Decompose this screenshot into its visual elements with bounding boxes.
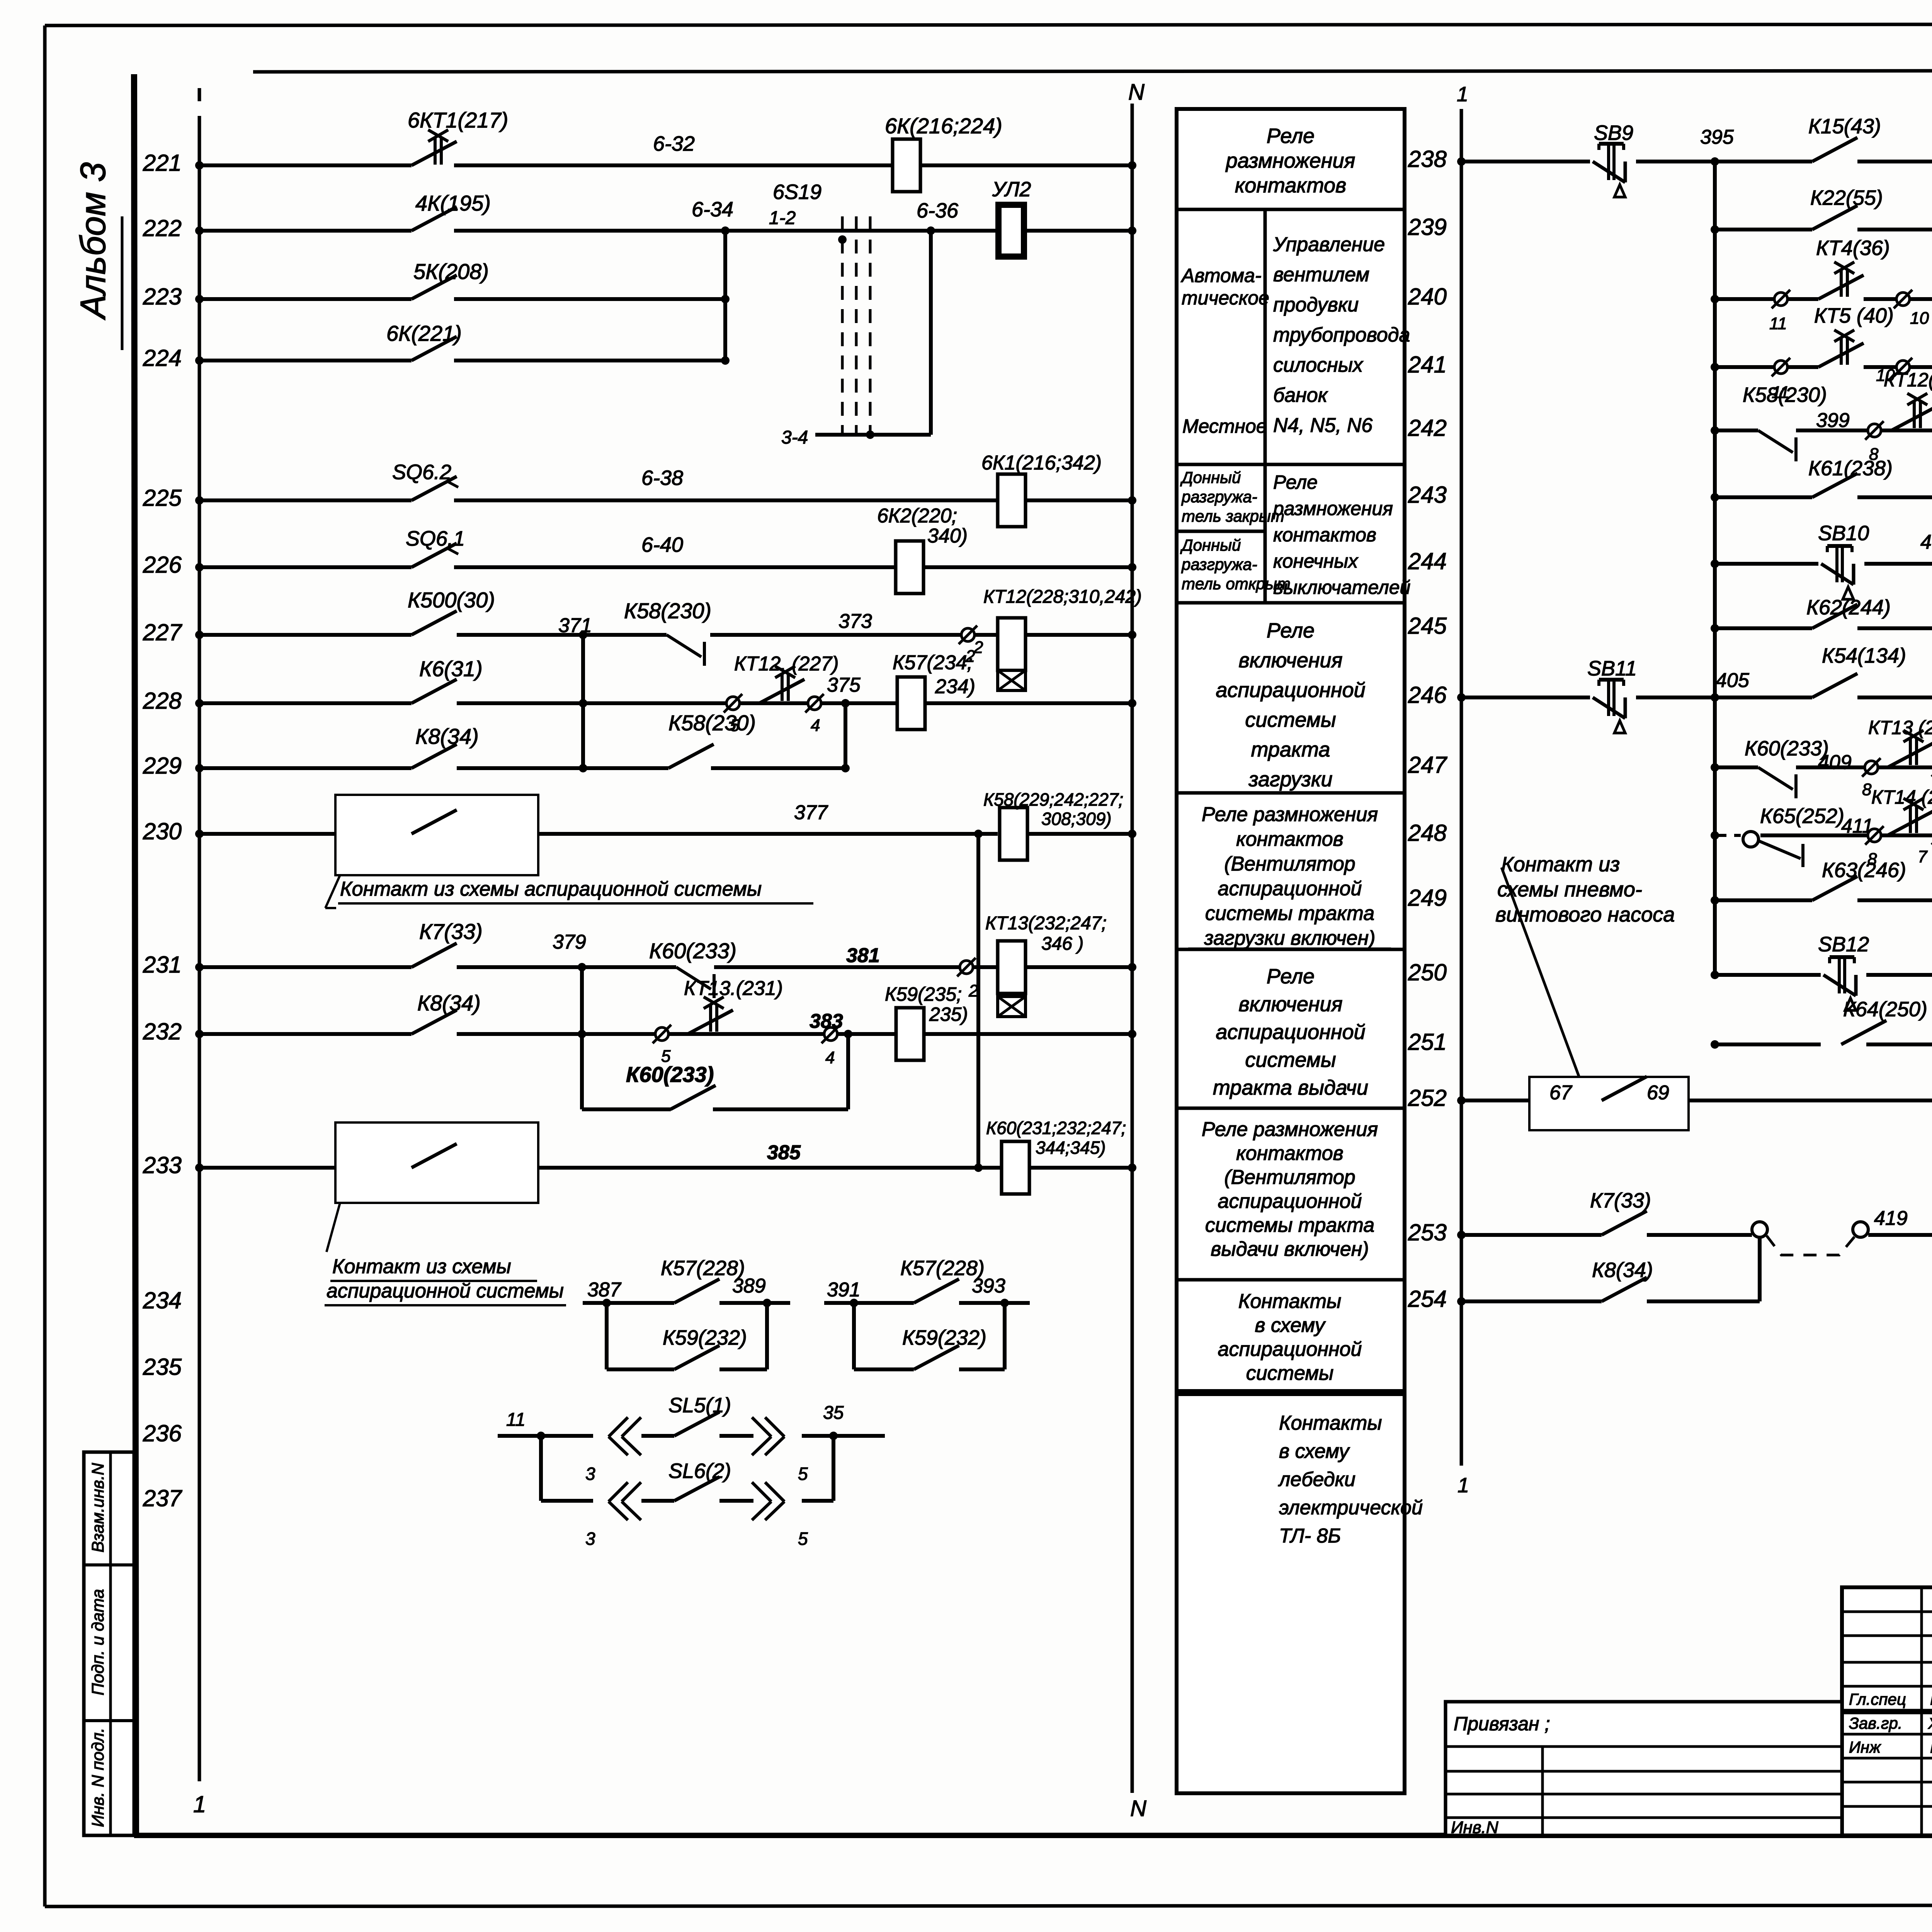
svg-text:375: 375 [827,674,861,696]
row number 225 [143,485,182,511]
svg-text:Инв.N: Инв.N [1451,1818,1498,1837]
svg-text:395: 395 [1700,126,1734,148]
svg-text:SB12: SB12 [1818,933,1869,956]
contact КТ4(36) timed [1818,262,1864,299]
pin Ø10 row241 [1876,358,1912,385]
svg-text:загрузки: загрузки [1248,768,1332,791]
contact К15(43) [1812,138,1857,162]
label К60(231;232;247;344;345) [986,1118,1126,1158]
svg-text:233: 233 [143,1152,182,1178]
svg-text:SL6(2): SL6(2) [668,1459,731,1483]
svg-text:К61(238): К61(238) [1808,457,1893,480]
row number 223 [143,284,182,310]
rung 248 wire [1711,831,1932,840]
svg-text:К500(30): К500(30) [408,588,495,612]
row number 248 [1408,820,1447,846]
label К59(232) first [663,1326,747,1349]
contact К60(233) break row231 [676,967,714,998]
middle cell Донный открыт [1180,536,1291,593]
left N rail label top [1128,80,1145,105]
net 236 wire [498,1432,885,1440]
button SB9 [1593,144,1625,197]
svg-text:схемы пневмо-: схемы пневмо- [1497,878,1642,901]
svg-text:308;309): 308;309) [1041,809,1112,829]
svg-text:К57(234;: К57(234; [893,651,973,674]
svg-text:Реле: Реле [1273,471,1318,493]
contact К500(30) [412,611,457,635]
middle cell Автоматическое [1180,265,1269,309]
svg-text:К58(229;242;227;: К58(229;242;227; [983,789,1123,810]
rung 249 wire [1711,896,1932,905]
svg-text:6КТ1(217): 6КТ1(217) [408,108,508,132]
svg-text:КТ13(232;247;: КТ13(232;247; [985,913,1107,934]
contact 6К(221) [412,337,457,361]
svg-text:399: 399 [1816,409,1850,432]
svg-text:К60(233): К60(233) [1745,737,1829,760]
svg-text:КТ5 (40): КТ5 (40) [1814,304,1894,327]
label К60(233) row247 [1745,737,1829,760]
svg-text:405: 405 [1716,669,1750,692]
svg-text:393: 393 [972,1275,1005,1297]
label 6S19 [773,180,821,204]
svg-text:419: 419 [1874,1207,1908,1230]
svg-text:Кадыкова: Кадыкова [1930,1738,1932,1756]
svg-text:344;345): 344;345) [1036,1138,1106,1158]
svg-text:системы тракта: системы тракта [1205,1214,1374,1236]
svg-text:5К(208): 5К(208) [413,259,489,284]
svg-text:6S19: 6S19 [773,180,821,204]
label КТ13(231) row247 [1868,717,1932,738]
rung 247 wire [1711,763,1932,772]
label SB10 [1818,522,1869,545]
left bus rail 1 [198,88,201,1781]
stamp label Взам.инв.N [88,1463,107,1553]
row number 239 [1408,214,1447,240]
svg-text:Контакт из схемы аспирационной: Контакт из схемы аспирационной системы [340,878,762,900]
svg-text:К64(250): К64(250) [1843,998,1927,1021]
svg-text:К59(235;: К59(235; [885,983,962,1005]
svg-text:Инж: Инж [1849,1738,1881,1756]
label К57(228) first [661,1257,745,1280]
svg-text:1-2: 1-2 [769,208,796,228]
node 389 [732,1275,766,1297]
svg-text:в схему: в схему [1279,1440,1350,1463]
label К58(229;242;227;308;309) [983,789,1123,829]
middle cell Управление вентилем [1273,233,1410,437]
rung 221 wire [195,161,1136,170]
label 6К1(216;342) [981,452,1102,474]
rung 243 wire [1711,493,1932,502]
label К65(252) row248 [1760,804,1844,828]
svg-text:(Вентилятор: (Вентилятор [1224,853,1355,875]
row number 241 [1408,352,1447,378]
album note Альбом 3 [73,162,122,350]
svg-text:К58(230): К58(230) [668,711,756,735]
svg-text:403: 403 [1920,531,1932,553]
svg-text:248: 248 [1408,820,1447,846]
pin Ø8 row242 [1865,421,1884,464]
svg-text:6-40: 6-40 [641,533,683,556]
rung 223 wire [195,295,725,303]
svg-text:(Вентилятор: (Вентилятор [1224,1166,1355,1189]
svg-text:4: 4 [811,716,820,735]
net 234 first pair wire [583,1299,790,1307]
label 6-40 [641,533,683,556]
staff row Инж [1849,1738,1932,1756]
row number 245 [1408,613,1447,639]
svg-text:силосных: силосных [1273,354,1364,376]
svg-text:К62(244): К62(244) [1806,596,1891,619]
label 419 [1874,1207,1908,1230]
row number 222 [143,215,182,241]
svg-text:КТ4(36): КТ4(36) [1816,236,1890,260]
pin Ø5 row232 [653,1025,671,1066]
svg-text:N4, N5, N6: N4, N5, N6 [1273,414,1372,437]
svg-text:конечных: конечных [1273,550,1359,572]
rung 232 wire [195,1030,1136,1038]
row number 246 [1408,682,1447,708]
svg-text:разгружа-: разгружа- [1181,555,1257,573]
svg-text:234): 234) [935,675,975,698]
svg-text:373: 373 [838,610,872,633]
pin Ø5 row228 [724,694,742,735]
contact КТ5(40) timed [1818,330,1864,367]
svg-text:размножения: размножения [1225,149,1355,172]
contact SL5(1) [674,1412,719,1436]
svg-text:системы тракта: системы тракта [1205,902,1374,925]
svg-text:Автома-: Автома- [1180,265,1262,286]
row number 221 [143,150,182,176]
label К59(232) second [902,1326,986,1349]
svg-text:К60(233): К60(233) [626,1062,714,1087]
branch SL6(2) [541,1436,833,1501]
label SL6(2) [668,1459,731,1483]
contact К8(34) row254 [1602,1277,1647,1301]
rung 244 wire [1711,560,1932,568]
svg-text:242: 242 [1408,415,1447,441]
middle cell Реле размножения контактов [1225,124,1355,197]
svg-text:225: 225 [143,485,182,511]
node 395 [1700,126,1734,148]
svg-text:К58(230): К58(230) [624,599,711,623]
svg-text:тракта выдачи: тракта выдачи [1213,1076,1368,1099]
row number 234 [143,1287,182,1313]
label 6-38 [641,466,683,490]
callout row230 pointer [325,875,340,908]
svg-text:221: 221 [143,150,182,176]
svg-text:237: 237 [143,1485,183,1511]
contact К60(233) lower [670,1085,716,1109]
svg-text:6К(221): 6К(221) [386,321,462,345]
contact К63(246) [1812,876,1857,900]
svg-text:контактов: контактов [1273,524,1376,546]
left N rail [1131,104,1134,1793]
node 391 [827,1279,861,1301]
coil К57(234;234) [897,677,925,730]
rung 254 wire [1457,1237,1760,1306]
connector chevrons SL6 [609,1482,784,1520]
svg-text:Инв. N подл.: Инв. N подл. [88,1728,107,1827]
svg-text:6К1(216;342): 6К1(216;342) [981,452,1102,474]
right bus rail 1 [1460,109,1463,1466]
svg-text:Контакты: Контакты [1279,1412,1382,1434]
coil К60(231;232;247;344;345) [1002,1141,1029,1194]
svg-text:340): 340) [927,525,968,547]
row number 242 [1408,415,1447,441]
svg-text:371: 371 [558,614,592,637]
svg-text:К60(231;232;247;: К60(231;232;247; [986,1118,1126,1138]
svg-text:аспирационной: аспирационной [1216,1020,1365,1044]
svg-text:222: 222 [143,215,182,241]
svg-text:391: 391 [827,1279,861,1301]
svg-text:загрузки включен): загрузки включен) [1204,927,1376,949]
left bus label 1 [193,1791,206,1817]
label К8(34) row232 [417,991,481,1015]
row number 231 [143,952,182,978]
row number 232 [143,1019,182,1044]
label 6К(221) [386,321,462,345]
svg-text:К60(233): К60(233) [649,939,736,963]
stamp label Подп. и дата [88,1589,107,1695]
middle cell Реле контактов конечных [1272,471,1410,598]
svg-text:379: 379 [553,931,586,953]
label К7(33) row253 [1590,1189,1651,1212]
svg-text:244: 244 [1408,548,1447,574]
contact К64(250) row251 [1841,1020,1886,1044]
svg-text:6-36: 6-36 [917,199,959,222]
pin Ø2 row227 [959,626,977,666]
svg-text:Реле: Реле [1267,124,1315,148]
svg-text:Альбом 3: Альбом 3 [73,162,113,320]
rung 253 wire [1457,1231,1932,1239]
rung 245 wire [1711,624,1932,633]
svg-text:Гл.спец: Гл.спец [1849,1690,1906,1708]
svg-text:тическое: тическое [1182,287,1269,309]
svg-text:Потехин: Потехин [1930,1690,1932,1708]
sheet inner top border [253,70,1932,72]
pin Ø10 row240 [1894,290,1929,328]
label К62(244) row245 [1806,596,1891,619]
svg-text:238: 238 [1408,146,1447,172]
pin Ø8 row248 [1865,826,1884,869]
svg-text:Донный: Донный [1180,536,1241,554]
svg-text:251: 251 [1408,1029,1447,1055]
label SL5(1) [668,1394,731,1417]
svg-text:383: 383 [810,1010,843,1032]
contact К62(244) row245 [1812,604,1857,628]
svg-text:К7(33): К7(33) [1590,1189,1651,1212]
svg-text:239: 239 [1408,214,1447,240]
svg-text:252: 252 [1408,1085,1447,1111]
stamp column box [84,1452,134,1835]
label 6К(216;224) [885,114,1002,138]
svg-text:КТ12. (227): КТ12. (227) [734,653,839,675]
label Инв.N [1451,1818,1498,1837]
svg-text:SB10: SB10 [1818,522,1869,545]
rung 227 wire [195,631,1136,639]
svg-text:253: 253 [1408,1219,1447,1245]
svg-text:электрической: электрической [1279,1497,1423,1519]
row number 243 [1408,482,1447,508]
contact К59(232) second [914,1345,959,1369]
svg-text:67: 67 [1549,1082,1573,1104]
svg-text:223: 223 [143,284,182,310]
changeover circles row253 [1752,1222,1868,1255]
svg-text:К58(230): К58(230) [1743,383,1827,406]
svg-text:35: 35 [823,1403,844,1423]
rung 231 wire [195,963,1136,971]
svg-text:включения: включения [1239,649,1343,672]
contact КТ12(227) timed row242 [1891,393,1932,430]
label КТ5(40) [1814,304,1894,327]
row number 233 [143,1152,182,1178]
svg-text:230: 230 [143,818,182,844]
label К500(30) [408,588,495,612]
contact 5К(208) [412,275,457,299]
wire junction column 230-233 [976,834,980,1168]
rung 225 wire [195,496,1136,505]
middle cell Реле включения выдачи [1213,965,1368,1099]
rung 240 wire [1711,295,1932,303]
svg-text:247: 247 [1408,752,1448,778]
node 403 [1920,531,1932,553]
label 6-32 [653,132,695,155]
svg-text:Зав.гр.: Зав.гр. [1849,1714,1902,1732]
svg-text:6К2(220;: 6К2(220; [877,505,957,527]
coil 6К1(216;342) [998,474,1026,527]
label SB9 [1594,121,1633,145]
row number 236 [143,1420,182,1446]
callout pnevmo pointer [1502,867,1579,1076]
label К64(250) row251 [1843,998,1927,1021]
contact К65(252) wiper row248 [1743,832,1803,867]
svg-text:69: 69 [1647,1082,1669,1104]
middle cell Контакты в схему лебедки [1278,1412,1423,1547]
svg-text:аспирационной: аспирационной [1216,679,1365,702]
row number 254 [1408,1286,1447,1312]
pin 3 upper [585,1464,595,1484]
label К6(31) [419,656,483,681]
svg-text:системы: системы [1245,708,1336,731]
node 393 [972,1275,1005,1297]
row number 237 [143,1485,183,1511]
svg-text:SB11: SB11 [1587,657,1637,680]
callout pnevmo text [1495,853,1675,926]
contact aspiration row233 [412,1144,457,1168]
svg-text:234: 234 [143,1287,182,1313]
svg-text:2: 2 [973,638,983,657]
contact К57(228) second [914,1279,959,1303]
svg-text:240: 240 [1408,284,1447,310]
row number 244 [1408,548,1447,574]
svg-text:контактов: контактов [1235,174,1346,197]
contact КТ13(231) timed row247 [1888,730,1932,767]
contact К7(33) row253 [1602,1211,1647,1235]
svg-text:Донный: Донный [1180,468,1241,486]
label 385 [767,1141,801,1164]
svg-text:Реле: Реле [1267,619,1315,642]
svg-text:аспирационной: аспирационной [1218,878,1362,900]
label 6-36 [917,199,959,222]
label К58(230) row242 [1743,383,1827,406]
svg-text:продувки: продувки [1273,294,1359,316]
svg-text:системы: системы [1245,1048,1336,1071]
contact К60(233) break row247 [1758,767,1796,798]
left N rail label bottom [1130,1796,1146,1821]
pin Ø11 row240 [1769,290,1790,333]
svg-text:3: 3 [585,1529,595,1549]
contact К8(34) row229 [412,744,457,768]
svg-text:235: 235 [143,1354,182,1380]
label К7(33) row231 [419,919,483,944]
label 3-4 [781,427,808,448]
row number 224 [143,345,182,371]
label КТ12.(227) [734,653,839,675]
svg-text:1: 1 [1458,1474,1469,1497]
branch К59(232) first [607,1303,767,1369]
label КТ12(228;310,242) [983,587,1142,607]
row number 240 [1408,284,1447,310]
node 383 [810,1010,843,1032]
svg-text:К22(55): К22(55) [1810,186,1883,209]
svg-text:трубопровода: трубопровода [1273,324,1410,346]
branch К60(233) lower wire [582,1034,848,1109]
label 4К(195) [415,191,491,215]
svg-text:243: 243 [1408,482,1447,508]
svg-text:К59(232): К59(232) [663,1326,747,1349]
node 371 [558,614,592,637]
label 6-34 [692,198,733,221]
coil КТ13(232;247;346) [998,941,1026,1017]
coil КТ12(228;310,242) [998,618,1026,690]
rung 224 wire [195,356,725,365]
label 5К(208) [413,259,489,284]
label К57(234;234) [893,638,983,698]
contact К22(55) [1812,206,1857,230]
contact 6КТ1(217) [412,130,457,165]
svg-text:241: 241 [1408,352,1447,378]
label К60(233) row231 [649,939,736,963]
wire 3-4 branch [815,231,931,439]
svg-text:228: 228 [143,688,182,714]
contact К58(230) break row242 [1758,430,1796,461]
row number 251 [1408,1029,1447,1055]
row number 247 [1408,752,1448,778]
svg-text:Подп. и дата: Подп. и дата [88,1589,107,1695]
svg-text:контактов: контактов [1236,1142,1344,1165]
sheet inner left border [134,74,136,1835]
label К8(34) row229 [415,724,479,748]
row number 230 [143,818,182,844]
svg-text:6-32: 6-32 [653,132,695,155]
svg-text:377: 377 [794,801,828,824]
rung 246 wire [1457,693,1932,702]
remote contact box row230 [335,795,538,875]
wire junction column 231-232 [580,967,584,1109]
contact SL6(2) [674,1477,719,1501]
pin Ø4 row228 [805,694,824,735]
svg-text:тель закрыт: тель закрыт [1182,507,1284,525]
svg-text:387: 387 [587,1279,622,1301]
svg-text:КТ14 (253): КТ14 (253) [1871,786,1932,808]
svg-text:в схему: в схему [1255,1314,1326,1337]
label 373 [838,610,872,633]
label К60(233) lower [626,1062,714,1087]
svg-text:аспирационной: аспирационной [1218,1190,1362,1213]
contact SQ6.2 [412,476,458,500]
svg-text:SL5(1): SL5(1) [668,1394,731,1417]
svg-text:Взам.инв.N: Взам.инв.N [88,1463,107,1553]
